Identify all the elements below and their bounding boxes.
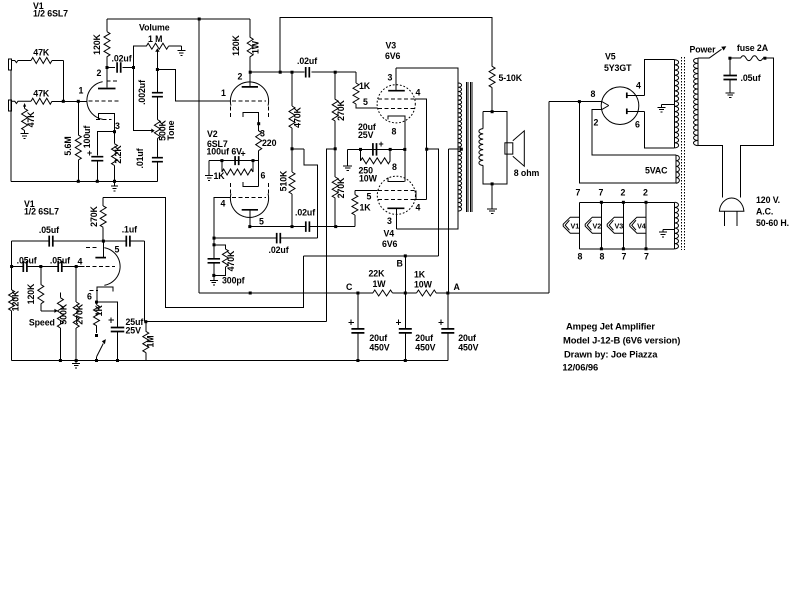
svg-text:10W: 10W [414,280,433,290]
svg-text:2: 2 [621,188,626,198]
triode V1a grid (dashed) [89,100,121,102]
svg-text:2: 2 [594,118,599,128]
heater flag V3 [607,202,623,249]
wire volume right to ground [180,46,182,50]
svg-text:7: 7 [576,188,581,198]
wire fuse to line [740,58,773,197]
svg-text:47K: 47K [26,111,36,128]
label .05uf [17,256,37,266]
speaker symbol [505,131,524,166]
svg-text:4: 4 [416,203,421,213]
svg-text:5.6M: 5.6M [63,136,73,155]
transformer PT 5V winding [676,155,679,183]
svg-text:V2: V2 [207,129,218,139]
label V4 [384,229,395,239]
pin label 1 (V1a grid) [79,86,84,96]
junction divider bottoms [291,225,338,228]
svg-text:47K: 47K [33,89,50,99]
tube V3 envelope (dotted circle) [377,85,415,123]
label 47K [33,48,50,58]
resistor 120K (osc 2) [38,267,44,311]
wire to V4 cathode [404,149,406,181]
pin label 8 (V5) [591,89,596,99]
tube V5 filament [602,102,609,110]
transformer PT primary winding [694,58,698,145]
svg-text:100uf 6V: 100uf 6V [207,147,243,157]
svg-text:1K: 1K [359,81,371,91]
triode V1a cathode [99,114,115,132]
wire cathode RC node [209,160,259,162]
ground (line filter) [726,93,735,98]
svg-text:22K: 22K [369,269,386,279]
svg-text:+: + [379,139,384,149]
svg-text:270K: 270K [336,177,346,198]
junction speaker bottom [491,182,494,185]
label 1W (rotated) [250,40,260,54]
resistor 5-10K (feedback) [489,18,495,112]
wire node A riser [447,149,449,293]
svg-text:6: 6 [261,171,266,181]
wire node B feed (to 270K tremolo) [103,197,303,307]
svg-text:3: 3 [388,73,393,83]
label 5VAC [645,166,668,176]
wire V2b cathode [253,161,259,187]
label 510K (rotated) [278,170,288,191]
resistor 510K (divider) [289,149,295,227]
potentiometer Volume 1M body [146,43,181,49]
resistor 120K (osc) [9,267,15,361]
resistor 1K (V4 grid stopper) [352,190,358,226]
svg-text:270K: 270K [89,205,99,226]
label V5 [605,52,616,62]
wire tremolo out to 1M [144,241,146,322]
transformer PT core (dotted) [682,57,685,250]
svg-text:4: 4 [78,257,83,267]
svg-text:5: 5 [367,192,372,202]
junction node B rail [404,292,407,295]
junction V1b grid node [75,265,78,268]
pin label 3 (V3 plate) [388,73,393,83]
wire B+ rail (C segment) [199,292,373,294]
heater flag V2 [585,202,601,249]
svg-text:5: 5 [259,217,264,227]
pin label 4 (V5) [636,81,641,91]
resistor 1K (V2 cathode) [222,161,253,175]
wire OT center tap to node A riser [448,148,461,150]
label 120K (rotated) [92,33,102,54]
svg-text:.1uf: .1uf [122,225,137,235]
junction 120K1W bottom [249,292,252,295]
wire node Q jog to tremolo riser [327,149,336,322]
triode V1b envelope arc [104,248,120,286]
triode V2b envelope cut dashes [231,183,269,195]
capacitor 300pf [208,245,221,276]
wire 470K bottom [214,267,226,275]
label V3 [386,41,397,51]
triode V1a plate [98,68,116,89]
label 6V6 (V3) [385,51,401,61]
label 10W [414,280,433,290]
wire 1K to V4 grid [355,189,378,191]
capacitor .05uf (osc) [12,236,104,247]
label 270K (rotated) [336,99,346,120]
wire node B horizontal [303,255,438,257]
pin label 7 (V2 heater) [599,188,604,198]
pin label 2 (V5) [594,118,599,128]
resistor 120K 1W (V2a plate load) [247,19,253,72]
svg-text:fuse 2A: fuse 2A [737,43,769,53]
svg-text:10W: 10W [359,174,378,184]
svg-text:1/2 6SL7: 1/2 6SL7 [24,207,59,217]
label + (25uf) [109,317,114,322]
pin label 1 (V2a grid) [221,88,226,98]
capacitor 25uf 25V [97,302,125,360]
triode V1b envelope cut dashes [86,248,99,291]
label 8 ohm [514,168,540,178]
svg-text:120 V.: 120 V. [756,195,780,205]
svg-text:1 M: 1 M [148,34,162,44]
label 10W [359,174,378,184]
pin label 3 (V1a cathode) [115,121,120,131]
wire volume wiper to V2a grid [157,70,230,101]
svg-text:A: A [454,282,461,292]
svg-text:120K: 120K [26,283,36,304]
input jack J1 [9,59,12,70]
svg-text:500K: 500K [59,303,69,324]
label + (100uf) [241,149,246,159]
resistor 47K (input mix, jack2) [31,98,63,104]
svg-text:8: 8 [392,127,397,137]
pin label 7 (V4 heater) [644,252,649,262]
triode V2a plate [242,72,258,87]
label + 100uf (rotated) [82,126,92,158]
ground (heater center tap) [659,232,667,237]
label 20uf [369,333,387,343]
label node B [397,259,403,269]
label 470K (rotated) [293,106,303,127]
svg-text:6: 6 [87,292,92,302]
resistor 47K (input mix, jack1) [31,58,63,64]
pin label 5 (V3 grid) [363,97,368,107]
pin label 2 (V4 heater) [643,188,648,198]
label 6V6 (V4) [382,239,398,249]
wire node up to volume pot left [134,46,147,67]
transformer PT primary line [697,58,699,145]
wire heater center tap [663,230,675,232]
resistor 470K (V2b grid leak) [222,249,228,267]
svg-text:470K: 470K [293,106,303,127]
wire 5V loop bottom [579,102,676,184]
resistor 270K (osc) [73,267,79,361]
triode V1b plate [95,241,106,258]
junction osc row2 mid [39,265,42,268]
svg-text:+: + [87,148,92,158]
svg-text:12/06/96: 12/06/96 [562,362,598,373]
wire cathode net to ground [347,149,349,165]
tube V5 plate (pin 4) [627,93,645,99]
svg-text:270K: 270K [75,303,85,324]
svg-text:Drawn by: Joe Piazza: Drawn by: Joe Piazza [564,349,658,360]
wire B+ rail to preamp plate loads (top rail 1) [107,18,250,20]
junction cathode RC dots [220,159,254,162]
pin label 4 (V2b grid) [221,199,226,209]
resistor 120K (V1a plate load) [104,19,110,68]
wire HV center tap [662,105,675,108]
wire ground rail (preamp) [11,180,157,182]
pin label 5 (V2b plate) [259,217,264,227]
capacitor .02uf (V2b to V4) [250,221,355,232]
label Tone (rotated) [166,120,176,140]
wire jack sleeve down to ground rail [10,70,12,181]
label 25V [126,325,142,335]
transformer OT primary winding [458,83,461,211]
wire V2a plate output [250,71,304,73]
wire cathode node to 100uf [97,132,114,156]
ground (volume pot) [177,51,185,56]
junction filter cap grounds [356,359,406,362]
label 500K (rotated) [158,119,168,140]
ground (V2 cathode RC) [205,176,213,181]
label 450V [458,343,478,353]
junction osc bottom dots [59,359,119,362]
wire top rail 2 (feedback) [280,18,492,73]
capacitor 100uf 6V [235,156,239,165]
capacitor 20uf 450V (node B) [396,293,412,361]
junction V2a cathode pin [257,122,260,125]
ground (speaker) [487,209,497,214]
pin label 6 (V5) [635,120,640,130]
wire grid node to tube [76,266,84,268]
svg-text:5Y3GT: 5Y3GT [604,63,632,73]
label 1M (rotated) [145,335,155,347]
svg-text:3: 3 [387,216,392,226]
wire V4 plate to OT [396,211,458,229]
fuse 2A [728,56,766,61]
svg-text:4: 4 [416,88,421,98]
svg-text:25V: 25V [126,325,142,335]
svg-text:2: 2 [643,188,648,198]
label 270K (rotated) [75,303,85,324]
label .02uf [295,208,315,218]
triode V2a grid (dashed) [232,100,266,102]
capacitor .05uf (osc 3) [41,261,76,272]
resistor 250 10W (cathode bias) [361,149,391,163]
title line 2 [563,335,680,346]
tube V3 screen wire [415,99,427,200]
svg-text:1K: 1K [414,270,426,280]
wire riser C to top rail [198,19,200,293]
resistor 1K (tremolo cathode) [94,302,100,333]
ground (preamp rail) [111,181,118,191]
triode V2a cathode [243,113,259,124]
wire rail A segment [436,292,549,294]
tube V3 plate [388,68,405,91]
junction volume wiper node [156,68,159,71]
wire V5 pin 8 (DC out) [549,101,602,103]
wire rail to V5 cathode [548,102,550,293]
resistor 1K (V3 grid stopper) [353,72,359,104]
capacitor .02uf (coupling V1a out) [107,62,134,73]
svg-text:Volume: Volume [139,23,170,33]
junction cathode net [403,148,406,151]
label 450V [369,343,389,353]
capacitor 100uf (cathode bypass) [91,157,103,161]
transformer PT heater winding [675,202,679,249]
wire primary top to switch [698,57,709,59]
svg-text:.02uf: .02uf [112,54,132,64]
pin label 2 (V1a plate) [97,68,102,78]
resistor 2.2K (cathode) [112,132,118,182]
pin label 6 (V2b cathode) [261,171,266,181]
junction heater bus dots [600,201,648,251]
svg-text:1K: 1K [94,305,104,317]
svg-text:V4: V4 [384,229,395,239]
triode V1b grid (dashed) [86,266,115,268]
potentiometer 500K Speed body [57,293,63,361]
tube V4 envelope (dotted circle) [377,176,415,214]
junction node C [356,292,359,295]
pin label 7 (V1 heater) [576,188,581,198]
wire rail B-C [393,292,417,294]
title line 3 [564,349,658,360]
wire 1K to V3 grid [356,104,377,108]
svg-text:1/2 6SL7: 1/2 6SL7 [33,9,68,19]
junction OT center tap [460,148,463,151]
heater flag V1 [563,202,579,249]
capacitor .05uf (osc 2) [12,261,41,272]
label 1W [373,279,387,289]
wire screens riser from node B [427,149,439,256]
junction node A [446,292,449,295]
label 20uf [458,333,476,343]
junction rail2 riser [279,71,282,74]
svg-text:V4: V4 [637,222,646,231]
svg-text:20uf: 20uf [458,333,476,343]
svg-text:450V: 450V [458,343,478,353]
svg-text:5: 5 [363,97,368,107]
label 1K (rotated) [94,305,104,317]
label 270K (rotated) [336,177,346,198]
svg-text:5-10K: 5-10K [499,73,523,83]
label 1K [414,270,426,280]
svg-text:6V6: 6V6 [385,51,401,61]
pin label 2 (V3 heater) [621,188,626,198]
label 120 V. [756,195,780,205]
svg-text:V1: V1 [571,222,580,231]
junction V1b plate node [102,240,105,243]
wire RC to ground [208,161,210,176]
label 5.6M (rotated) [63,136,73,155]
wire heater bus top [579,201,674,203]
label .05uf [50,256,70,266]
label 25uf [126,317,144,327]
junction node B riser [404,254,407,257]
label A.C. [756,207,773,217]
svg-text:+: + [241,149,246,159]
wire speaker to ground [491,184,493,209]
pin label 3 (V2a cathode) [260,129,265,139]
tube V4 grid dashes [378,190,415,199]
wire heater bus bottom [579,248,674,250]
resistor 5.6M (grid leak) [75,101,81,181]
junction V2b grid node dots [213,237,216,247]
svg-text:A.C.: A.C. [756,207,773,217]
resistor 1K 10W [417,290,437,296]
triode V2b plate [242,210,258,227]
wire node B riser [404,256,406,293]
svg-text:1: 1 [79,86,84,96]
label 500K (rotated) [59,303,69,324]
label .02uf [269,245,289,255]
ground (300pf) [210,275,218,285]
capacitor .1uf (tremolo out) [103,236,144,247]
junction dots on ground rail [77,180,116,183]
triode V2b cathode bar [243,182,259,186]
label 120K (rotated) [10,290,20,311]
svg-text:.002uf: .002uf [137,80,147,105]
svg-text:300pf: 300pf [222,276,245,286]
wire plate6 to HV bottom [645,112,675,148]
AC plug [719,198,744,226]
junction divider tops [291,71,337,74]
svg-text:B: B [397,259,403,269]
pin label 6 (V1b cathode) [87,292,92,302]
label 22K [369,269,386,279]
wire primary bottom to plug [698,146,722,198]
label 120K (rotated) [26,283,36,304]
svg-text:7: 7 [622,252,627,262]
wire speaker loop [483,112,507,184]
svg-text:25V: 25V [358,130,374,140]
switch (tremolo foot sw) [97,339,106,360]
tube V4 screen wire [415,190,427,199]
junction grid node [62,100,80,103]
label .01uf (rotated) [135,148,145,168]
pin label 8 (V3 cathode) [392,127,397,137]
capacitor .01uf [152,158,163,182]
label 470K (rotated) [226,250,236,271]
triode V2a envelope cut dashes [231,107,269,120]
label 450V [415,343,435,353]
wire jog divider to .02uf [304,149,318,238]
label 50-60 H. [756,218,789,228]
label + (20uf 25V) [379,139,384,149]
ground (output cathode) [343,166,352,171]
ground (tremolo rail) [72,361,80,369]
label .05uf [39,225,59,235]
svg-text:C: C [346,282,353,292]
ground (HV center tap) [658,107,666,112]
svg-text:V3: V3 [386,41,397,51]
wire cathode network [348,148,405,150]
svg-text:8: 8 [591,89,596,99]
junction tremolo switch top [95,334,98,337]
svg-text:8: 8 [392,162,397,172]
svg-text:220: 220 [262,138,277,148]
pin label 8 (V4 cathode) [392,162,397,172]
svg-text:6V6: 6V6 [382,239,398,249]
svg-text:5: 5 [115,245,120,255]
svg-text:7: 7 [599,188,604,198]
junction top rail / C-node riser [198,18,201,21]
input jack J2 [9,100,12,111]
resistor 270K (V1b plate load) [100,197,106,241]
capacitor .02uf (to V2b grid) [214,233,318,244]
pin label 3 (V4 plate) [387,216,392,226]
svg-text:8: 8 [600,252,605,262]
label 250 [359,166,374,176]
pin label 4 (V4 screen) [416,203,421,213]
